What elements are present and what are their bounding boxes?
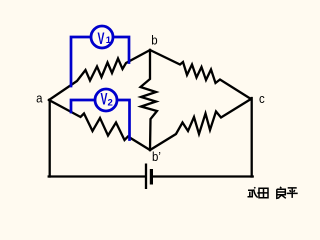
signature kanji 武 <box>248 187 259 197</box>
svg-text:c: c <box>259 91 265 106</box>
svg-text:a: a <box>36 91 43 106</box>
resistor R5 (b to b') <box>141 50 158 150</box>
resistor R1 (a to b) <box>49 50 150 100</box>
svg-text:b: b <box>151 33 158 48</box>
signature kanji 良 <box>277 187 286 199</box>
svg-text:1: 1 <box>106 35 112 46</box>
svg-text:V: V <box>98 30 105 48</box>
signature kanji 田 <box>259 188 268 198</box>
wire V1 right lead <box>113 37 129 63</box>
svg-text:b’: b’ <box>152 149 161 164</box>
wire V1 left lead <box>71 37 91 86</box>
resistor R2 (b to c) <box>150 50 251 99</box>
svg-text:V: V <box>101 90 108 108</box>
voltmeter V1 <box>91 26 113 48</box>
wire bottom rail right <box>152 175 253 177</box>
battery B (short plate) <box>150 169 153 185</box>
wire V2 left lead <box>71 100 95 112</box>
svg-text:2: 2 <box>108 97 113 108</box>
signature kanji 平 <box>287 188 298 198</box>
battery B (long plate) <box>145 164 147 190</box>
resistor R4 (b' to c) <box>150 99 251 150</box>
resistor R3 (a to b') <box>49 100 150 150</box>
wire c to bottom rail <box>251 98 253 177</box>
wire a to bottom rail <box>49 100 51 177</box>
wire V2 right lead <box>117 100 130 140</box>
voltmeter V2 <box>95 89 117 111</box>
wire bottom rail left <box>49 175 145 177</box>
